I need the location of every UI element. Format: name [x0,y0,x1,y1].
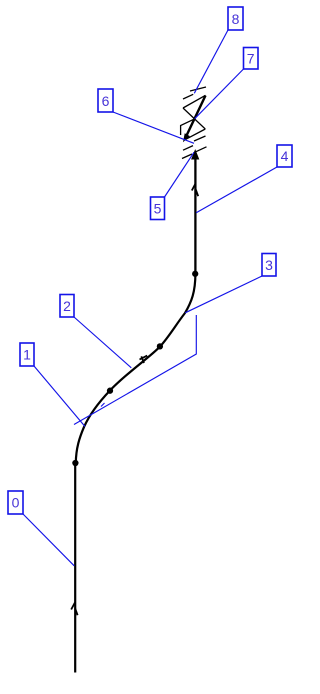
svg-text:1: 1 [23,347,31,363]
svg-text:7: 7 [247,51,255,67]
svg-text:4: 4 [281,148,289,164]
svg-text:6: 6 [102,93,110,109]
svg-text:5: 5 [154,201,162,217]
svg-text:2: 2 [63,298,71,314]
svg-text:3: 3 [265,257,273,273]
svg-text:8: 8 [232,11,240,27]
svg-text:0: 0 [12,495,20,511]
